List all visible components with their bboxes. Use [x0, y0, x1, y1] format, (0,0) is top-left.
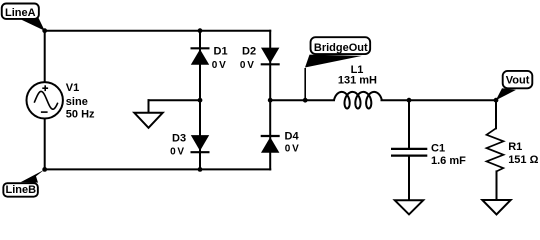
svg-text:151 Ω: 151 Ω [508, 154, 538, 166]
svg-text:LineA: LineA [5, 7, 36, 19]
svg-text:D2: D2 [242, 46, 256, 58]
svg-text:R1: R1 [508, 141, 522, 153]
svg-text:LineB: LineB [6, 184, 37, 196]
svg-text:D1: D1 [214, 46, 228, 58]
svg-text:131 mH: 131 mH [338, 75, 377, 87]
svg-text:0 V: 0 V [212, 60, 226, 71]
svg-text:C1: C1 [431, 143, 445, 155]
svg-text:50 Hz: 50 Hz [66, 109, 95, 121]
svg-text:1.6 mF: 1.6 mF [431, 155, 466, 167]
svg-text:0 V: 0 V [170, 147, 184, 158]
svg-text:BridgeOut: BridgeOut [314, 42, 368, 54]
svg-text:0 V: 0 V [285, 144, 299, 155]
svg-text:sine: sine [66, 96, 88, 108]
svg-text:V1: V1 [66, 82, 79, 94]
svg-text:D3: D3 [172, 132, 186, 144]
svg-text:Vout: Vout [506, 74, 530, 86]
svg-text:0 V: 0 V [240, 60, 254, 71]
svg-text:D4: D4 [285, 131, 300, 143]
